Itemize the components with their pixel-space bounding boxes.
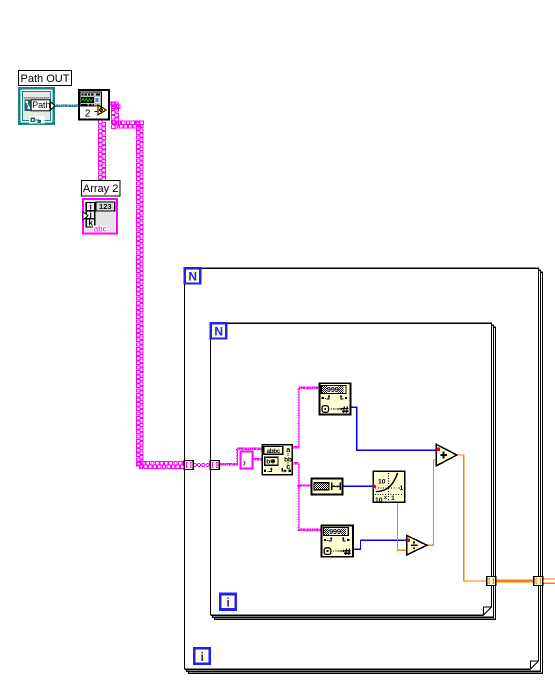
svg-text:999: 999 <box>327 385 339 394</box>
svg-text:Path: Path <box>32 100 50 110</box>
svg-text:N: N <box>188 270 197 284</box>
svg-text:Array 2: Array 2 <box>83 183 118 195</box>
svg-text:b: b <box>266 459 270 466</box>
svg-text:N: N <box>214 325 223 339</box>
svg-text:c: c <box>286 462 290 471</box>
svg-text:10: 10 <box>375 497 383 504</box>
svg-text:2: 2 <box>85 109 91 120</box>
svg-text:999: 999 <box>329 527 341 536</box>
svg-text:i: i <box>201 650 204 664</box>
svg-text:x: x <box>384 495 387 501</box>
svg-text:1: 1 <box>391 495 395 502</box>
svg-text:Path OUT: Path OUT <box>21 73 70 85</box>
svg-text:10: 10 <box>378 479 386 486</box>
svg-text:123: 123 <box>99 202 112 211</box>
svg-text:k: k <box>88 219 93 228</box>
svg-text:abbc: abbc <box>266 448 280 455</box>
svg-text:1: 1 <box>400 485 404 492</box>
svg-text:i: i <box>227 596 230 610</box>
svg-text:abc: abc <box>94 224 107 233</box>
